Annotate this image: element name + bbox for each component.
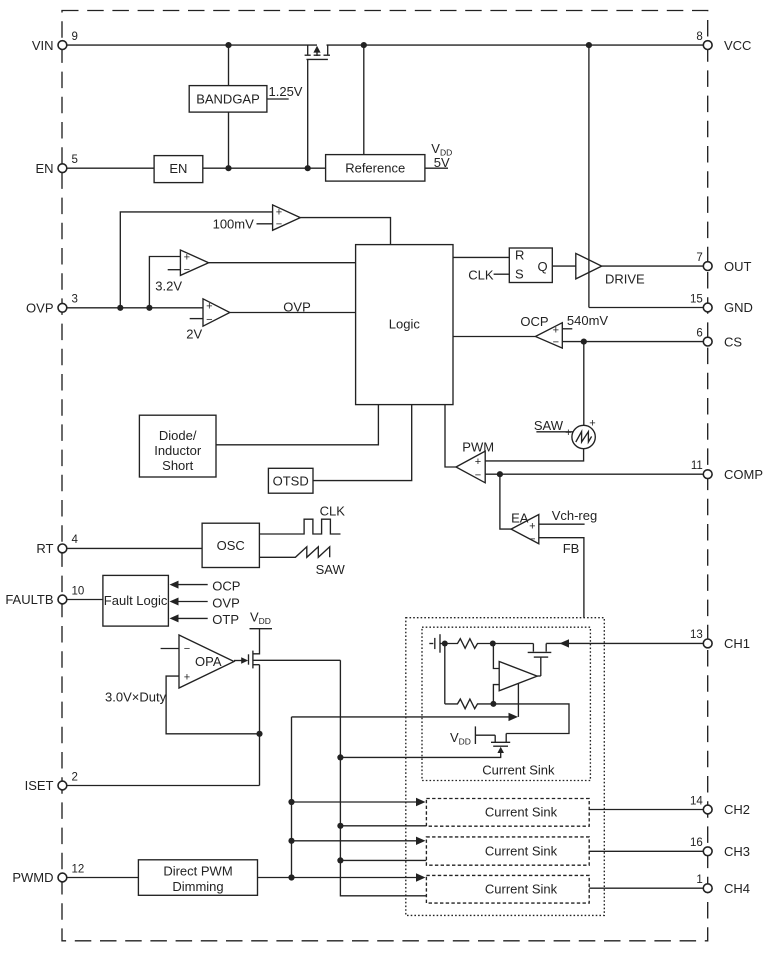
power VDD bar vertical: [474, 726, 476, 744]
wire COMP net: PWM minus input to pin 11: [485, 473, 703, 475]
svg-text:VDD: VDD: [250, 610, 271, 627]
svg-text:Current Sink: Current Sink: [482, 762, 555, 777]
svg-text:Diode/: Diode/: [159, 428, 197, 443]
svg-text:DRIVE: DRIVE: [605, 271, 645, 286]
node junction ISET/feedback: [256, 731, 262, 737]
svg-text:SAW: SAW: [534, 418, 564, 433]
svg-text:10: 10: [72, 585, 85, 597]
svg-text:+: +: [206, 301, 212, 313]
op-amp comparator 100mV: [273, 205, 301, 230]
block Diode/Inductor Short: [139, 415, 216, 477]
wire OVP pin input: [67, 307, 203, 309]
block Logic: [356, 245, 453, 405]
svg-text:+: +: [184, 671, 190, 683]
svg-text:OCP: OCP: [520, 314, 548, 329]
wire node B to M2 top: [493, 643, 534, 645]
svg-text:13: 13: [690, 629, 703, 641]
svg-text:12: 12: [72, 863, 85, 875]
wire Logic to RS flip-flop R input: [453, 256, 509, 258]
svg-text:8: 8: [696, 31, 702, 43]
wire summing node to PWM comparator plus input: [485, 449, 583, 461]
wire OPA output to M1 gate with arrowhead: [234, 660, 243, 662]
svg-text:OCP: OCP: [212, 579, 240, 594]
op-amp U2: [499, 662, 537, 691]
svg-text:1.25V: 1.25V: [269, 84, 303, 99]
svg-text:CS: CS: [724, 334, 742, 349]
svg-text:OTP: OTP: [212, 612, 239, 627]
node junction reference/CH2 tap: [337, 823, 343, 829]
svg-text:EN: EN: [35, 161, 53, 176]
pin 1 CH4: [696, 874, 750, 896]
svg-text:100mV: 100mV: [213, 217, 255, 232]
block Current Sink CH2: [426, 799, 589, 827]
block Current Sink CH4: [426, 875, 589, 903]
pin 14 CH2: [690, 795, 750, 817]
transistor M1 source follower: [249, 651, 260, 669]
wire CH1 pin into M2 with arrowhead: [546, 642, 703, 644]
block EN: [154, 156, 203, 183]
svg-text:Current Sink: Current Sink: [485, 844, 558, 859]
svg-text:FAULTB: FAULTB: [5, 592, 53, 607]
pin 10 FAULTB: [5, 585, 84, 607]
op-amp OPA: [179, 635, 234, 688]
wire BANDGAP down to EN net: [228, 112, 230, 168]
svg-text:GND: GND: [724, 300, 753, 315]
svg-text:Current Sink: Current Sink: [485, 882, 558, 897]
block Reference: [326, 155, 425, 182]
svg-text:Inductor: Inductor: [154, 443, 202, 458]
wire VDD bar down to M1 drain: [253, 629, 259, 654]
wire CH4 output to pin 1: [589, 887, 703, 889]
node junction B: [490, 641, 496, 647]
wire PWMD pin to Direct PWM Dimming: [67, 877, 139, 879]
label VDD 5V output of Reference: [425, 167, 448, 169]
svg-text:OPA: OPA: [195, 654, 222, 669]
pin 5 EN: [35, 154, 77, 176]
wire VIN down to BANDGAP: [228, 45, 230, 86]
wire PWM output up into Logic bottom: [445, 405, 456, 467]
svg-text:−: −: [276, 219, 282, 231]
wire U2 bottom input to node C: [493, 685, 499, 704]
pin 13 CH1: [690, 629, 750, 651]
buffer DRIVE: [576, 253, 602, 279]
label 3.2V with stub: [168, 269, 181, 271]
label 2V with stub: [190, 318, 203, 320]
svg-text:−: −: [529, 534, 535, 546]
svg-text:VCC: VCC: [724, 38, 751, 53]
wire CS net: OCP minus input to pin 6: [562, 341, 703, 343]
svg-text:FB: FB: [563, 541, 580, 556]
svg-text:3: 3: [72, 294, 78, 306]
resistor R2: [445, 699, 494, 709]
label 100mV with stub: [257, 223, 273, 225]
wire node C to M3 drain: [493, 704, 569, 734]
wire reference to CH2 current sink: [340, 825, 426, 827]
wire GND to pin 15: [589, 307, 703, 309]
svg-text:OVP: OVP: [212, 595, 239, 610]
label 1.25V with stub: [267, 98, 289, 100]
wire dimming output to CH4 current sink with arrowhead: [258, 877, 418, 879]
svg-text:CLK: CLK: [320, 504, 346, 519]
wire 2V comparator output to Logic, net OVP: [230, 312, 356, 314]
wire Logic to OCP comparator output side: [453, 336, 536, 338]
svg-text:PWM: PWM: [462, 440, 494, 455]
svg-text:CH3: CH3: [724, 844, 750, 859]
wire OUT to pin 7: [602, 265, 704, 267]
svg-text:OVP: OVP: [283, 300, 310, 315]
svg-text:−: −: [184, 643, 190, 655]
node junction reference/detail tap: [337, 754, 343, 760]
wire OSC SAW output waveform: [259, 547, 329, 558]
op-amp comparator 2V: [203, 299, 230, 326]
svg-text:3.0V×Duty: 3.0V×Duty: [105, 690, 167, 705]
wire dimming to CH2 current sink with arrowhead: [292, 801, 418, 803]
svg-text:5V: 5V: [434, 155, 450, 170]
wire 3.2V comparator output to Logic: [209, 262, 356, 264]
svg-text:16: 16: [690, 837, 703, 849]
node junction reference/CH3 tap: [337, 857, 343, 863]
wire OSC CLK output waveform: [259, 519, 340, 534]
block OSC: [202, 523, 259, 567]
node junction EN/M0 gate: [305, 165, 311, 171]
block BANDGAP: [189, 86, 267, 113]
node junction CS/SAW branch: [581, 339, 587, 345]
wire RT pin to OSC: [67, 547, 202, 549]
svg-text:CH1: CH1: [724, 636, 750, 651]
node junction VIN/drive supply: [586, 42, 592, 48]
wire enable into op-amp U2 bottom edge: [517, 683, 519, 717]
wire 100mV comparator output to Logic top: [300, 218, 390, 245]
svg-text:14: 14: [690, 795, 703, 807]
svg-text:+: +: [589, 418, 595, 430]
wire OVP to 3.2V comparator: [149, 257, 180, 308]
current sink group outer dotted box: [406, 618, 605, 916]
pin 7 OUT: [696, 252, 751, 274]
node junction dimming/CH2 tap: [288, 799, 294, 805]
svg-text:PWMD: PWMD: [12, 870, 53, 885]
svg-text:Direct PWM: Direct PWM: [163, 863, 232, 878]
svg-text:4: 4: [72, 534, 79, 546]
svg-text:1: 1: [696, 874, 702, 886]
wire VIN rail (pin 9 to pass transistor): [67, 44, 317, 46]
pin 16 CH3: [690, 837, 750, 859]
svg-text:OVP: OVP: [26, 301, 53, 316]
wire EN block to Reference: [203, 167, 326, 169]
svg-text:CH2: CH2: [724, 802, 750, 817]
svg-text:ISET: ISET: [25, 778, 54, 793]
wire CS down to summing node: [583, 342, 585, 426]
pin 6 CS: [696, 327, 742, 349]
resistor R1: [445, 639, 493, 649]
svg-text:RT: RT: [36, 541, 53, 556]
svg-text:COMP: COMP: [724, 467, 763, 482]
svg-text:9: 9: [72, 31, 78, 43]
node junction VIN/BANDGAP: [225, 42, 231, 48]
wire node A down: [444, 644, 446, 704]
wire EA output to COMP net: [500, 474, 511, 529]
svg-text:15: 15: [690, 293, 703, 305]
svg-text:3.2V: 3.2V: [155, 279, 182, 294]
pin 4 RT: [36, 534, 78, 556]
node junction OVP/100mV branch: [117, 305, 123, 311]
transistor M0 pass FET on VIN rail: [305, 45, 330, 59]
wire OTP flag arrow into Fault Logic: [178, 617, 208, 619]
svg-text:5: 5: [72, 154, 78, 166]
op-amp error amplifier EA (points left): [511, 515, 539, 544]
svg-text:OTSD: OTSD: [273, 473, 309, 488]
transistor M2 sink FET: [528, 644, 552, 677]
svg-text:2: 2: [72, 771, 78, 783]
wire CH2 output to pin 14: [589, 809, 703, 811]
wire FAULTB pin to Fault Logic: [67, 599, 103, 601]
node junction COMP/EA output: [497, 471, 503, 477]
svg-text:Vch-reg: Vch-reg: [552, 508, 598, 523]
svg-text:Current Sink: Current Sink: [485, 805, 558, 820]
svg-text:+: +: [276, 206, 282, 218]
wire OCP flag arrow into Fault Logic: [178, 584, 208, 586]
svg-text:11: 11: [691, 460, 703, 472]
wire U2 output to M2 gate: [537, 675, 541, 677]
wire OTSD to Logic bottom: [313, 405, 412, 481]
op-amp comparator PWM (points left): [456, 451, 485, 483]
svg-text:−: −: [184, 264, 190, 276]
op-amp comparator 3.2V: [180, 250, 208, 275]
flip-flop U_RS (RS latch): [509, 248, 552, 283]
transistor M3 bias FET: [475, 734, 510, 758]
node junction OVP/3.2V branch: [146, 305, 152, 311]
svg-text:SAW: SAW: [316, 562, 346, 577]
power VDD bar: [250, 628, 273, 630]
svg-text:+: +: [565, 427, 571, 439]
svg-text:OSC: OSC: [217, 538, 245, 553]
svg-text:2V: 2V: [186, 327, 202, 342]
node junction dimming/CH3 tap: [288, 838, 294, 844]
pin 11 COMP: [691, 460, 763, 482]
svg-text:BANDGAP: BANDGAP: [196, 92, 260, 107]
capacitor C1: [429, 634, 445, 653]
wire OPA plus input feedback from ISET node: [166, 676, 259, 734]
block Fault Logic: [103, 575, 168, 626]
wire EN pin to EN block: [67, 167, 154, 169]
pin 9 VIN: [32, 31, 78, 53]
node junction EN/BANDGAP: [225, 165, 231, 171]
svg-text:+: +: [553, 325, 559, 337]
wire current reference vertical rail: [340, 660, 426, 896]
svg-text:S: S: [515, 266, 524, 281]
pin 3 OVP: [26, 294, 78, 316]
wire dimming to current sink detail with arrowhead: [292, 716, 511, 718]
wire VCC rail down to Reference: [363, 45, 365, 155]
wire CH3 output to pin 16: [589, 850, 703, 852]
wire drive supply vertical VCC to GND: [588, 45, 590, 307]
svg-text:Fault Logic: Fault Logic: [104, 593, 168, 608]
svg-text:Q: Q: [538, 259, 548, 274]
svg-text:VDD: VDD: [450, 730, 471, 747]
wire VCC rail (pass transistor to pin 8): [327, 44, 704, 46]
svg-text:CLK: CLK: [468, 268, 494, 283]
wire reference to M2 gate: [340, 756, 501, 758]
node junction dimming/vertical: [288, 874, 294, 880]
wire dimming vertical rail: [291, 717, 293, 878]
svg-text:540mV: 540mV: [567, 313, 609, 328]
node junction A: [442, 641, 448, 647]
svg-text:+: +: [529, 521, 535, 533]
svg-text:OUT: OUT: [724, 259, 752, 274]
wire OVP to 100mV comparator: [120, 212, 272, 308]
pin 8 VCC: [696, 31, 751, 53]
current sink detail dotted box: [422, 627, 590, 780]
wire dimming to CH3 current sink with arrowhead: [292, 840, 418, 842]
svg-text:EA: EA: [511, 510, 529, 525]
block Direct PWM Dimming: [138, 860, 257, 896]
wire OVP flag arrow into Fault Logic: [178, 601, 208, 603]
wire M0 gate down to EN net: [307, 59, 309, 168]
svg-text:VIN: VIN: [32, 38, 54, 53]
pin 12 PWMD: [12, 863, 84, 885]
svg-text:R: R: [515, 248, 524, 263]
svg-text:+: +: [184, 252, 190, 264]
svg-text:Dimming: Dimming: [172, 879, 223, 894]
block Current Sink CH3: [426, 837, 589, 865]
svg-text:6: 6: [696, 327, 702, 339]
svg-text:CH4: CH4: [724, 881, 750, 896]
wire Q output to DRIVE buffer: [552, 265, 576, 267]
op-amp comparator OCP (points left): [535, 323, 562, 348]
pin 2 ISET: [25, 771, 78, 793]
wire Diode/Inductor Short to Logic bottom: [216, 405, 378, 445]
wire FB net: EA minus input down to current sink group: [539, 538, 584, 618]
block OTSD: [268, 468, 313, 493]
wire node B to U2 top input: [493, 644, 499, 669]
summer SAW summing node: [572, 425, 595, 448]
svg-text:7: 7: [696, 252, 702, 264]
OPA minus input stub: [161, 648, 179, 650]
wire M1 drain output to current reference rail: [254, 659, 341, 661]
svg-text:EN: EN: [169, 161, 187, 176]
svg-text:−: −: [475, 470, 481, 482]
svg-text:+: +: [475, 456, 481, 468]
svg-text:Short: Short: [162, 458, 193, 473]
wire ISET pin to node: [67, 785, 260, 787]
wire reference to CH3 current sink: [340, 859, 426, 861]
svg-text:−: −: [553, 337, 559, 349]
pin 15 GND: [690, 293, 753, 315]
svg-text:Reference: Reference: [345, 161, 405, 176]
node junction C: [490, 701, 496, 707]
svg-text:−: −: [206, 314, 212, 326]
wire M1 source down to ISET node and pin 2: [259, 665, 261, 786]
svg-text:Logic: Logic: [389, 317, 421, 332]
